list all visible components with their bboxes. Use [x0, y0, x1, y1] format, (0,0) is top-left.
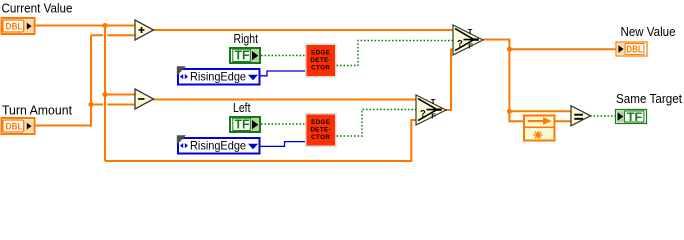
control terminal Current Value DBL: [2, 18, 35, 34]
wire: branch to subtract top input: [105, 94, 136, 96]
svg-text:Current Value: Current Value: [2, 2, 73, 16]
wire: Turn Amount to add bottom input (gap at crossing): [91, 34, 136, 36]
wire: branch to equals top input: [509, 110, 571, 112]
svg-text:TF: TF: [235, 48, 250, 62]
wire: vertical down to compare branch: [508, 49, 510, 111]
wire: select2 output riser to select1 F input: [445, 50, 455, 111]
control terminal Turn Amount DBL: [2, 118, 35, 134]
svg-text:DETE-: DETE-: [310, 127, 331, 134]
svg-text:?: ?: [457, 38, 463, 49]
indicator terminal New Value DBL: [616, 42, 647, 56]
wire: Left TF to edge detector 2 (boolean dotted): [261, 123, 305, 125]
feedback node: [524, 116, 555, 141]
select node 2: [416, 95, 446, 125]
svg-text:EDGE: EDGE: [311, 50, 330, 57]
wire: Turn Amount to subtract bottom input (gap at crossing): [91, 104, 136, 106]
svg-text:Turn Amount: Turn Amount: [2, 104, 73, 118]
enum constant RisingEdge 1: [177, 66, 260, 84]
svg-text:EDGE: EDGE: [311, 119, 330, 126]
svg-text:RisingEdge: RisingEdge: [190, 139, 246, 153]
wire: edge detector 1 output to select1 s input (boolean dotted): [337, 41, 454, 66]
svg-text:DBL: DBL: [626, 44, 643, 55]
svg-text:T: T: [468, 27, 473, 36]
wire: Right TF to edge detector 1 (boolean dotted): [261, 55, 305, 57]
svg-text:CTOR: CTOR: [311, 65, 330, 72]
svg-text:CTOR: CTOR: [311, 134, 330, 141]
svg-text:?: ?: [420, 108, 426, 119]
svg-text:DBL: DBL: [6, 21, 23, 32]
wire: select1 output to New Value: [483, 40, 616, 50]
wire: Current Value to add node: [36, 25, 137, 27]
svg-text:New Value: New Value: [621, 25, 676, 39]
add node: [135, 20, 154, 40]
svg-text:RisingEdge: RisingEdge: [190, 70, 246, 84]
wire: RisingEdge 1 to edge detector 1 (enum blue): [261, 71, 306, 76]
svg-text:TF: TF: [235, 117, 250, 131]
wire: edge detector 2 output to select2 s input (boolean dotted): [337, 110, 417, 137]
svg-text:F: F: [468, 42, 473, 51]
wire: subtract output to select2 T input: [153, 99, 417, 101]
control terminal Left TF: [230, 117, 260, 132]
wire: add output to select1 T input: [153, 29, 454, 31]
svg-text:T: T: [431, 97, 436, 106]
wire: Current Value bottom run to select2 F input: [105, 120, 417, 161]
svg-text:Right: Right: [234, 32, 259, 46]
equals node: [571, 106, 591, 126]
node junction dot A: [102, 23, 107, 28]
svg-text:TF: TF: [627, 110, 643, 124]
wire: feedback node output to equals bottom input: [555, 120, 572, 122]
wire: Turn Amount horizontal: [36, 125, 92, 127]
enum constant RisingEdge 2: [177, 135, 260, 153]
subtract node: [135, 89, 154, 109]
node junction dot C: [88, 102, 93, 107]
svg-text:DBL: DBL: [6, 121, 23, 132]
wire: Current Value vertical branch: [104, 25, 106, 162]
control terminal Right TF: [230, 48, 260, 63]
svg-text:Left: Left: [233, 101, 251, 115]
svg-text:Same Target: Same Target: [616, 92, 682, 106]
wire: Turn Amount vertical riser: [90, 35, 92, 126]
edge detector 2: [305, 113, 337, 147]
wire: branch to feedback node input: [509, 111, 523, 121]
svg-text:F: F: [431, 112, 436, 121]
node junction dot E: [507, 109, 512, 114]
svg-text:DETE-: DETE-: [310, 57, 331, 64]
node junction dot D: [507, 47, 512, 52]
wire: RisingEdge 2 to edge detector 2 (enum blue): [261, 142, 306, 147]
indicator terminal Same Target TF: [616, 110, 647, 124]
edge detector 1: [305, 44, 337, 78]
select node 1: [453, 25, 483, 55]
node junction dot B: [102, 92, 107, 97]
wire: equals output to Same Target (boolean dotted): [590, 115, 616, 117]
